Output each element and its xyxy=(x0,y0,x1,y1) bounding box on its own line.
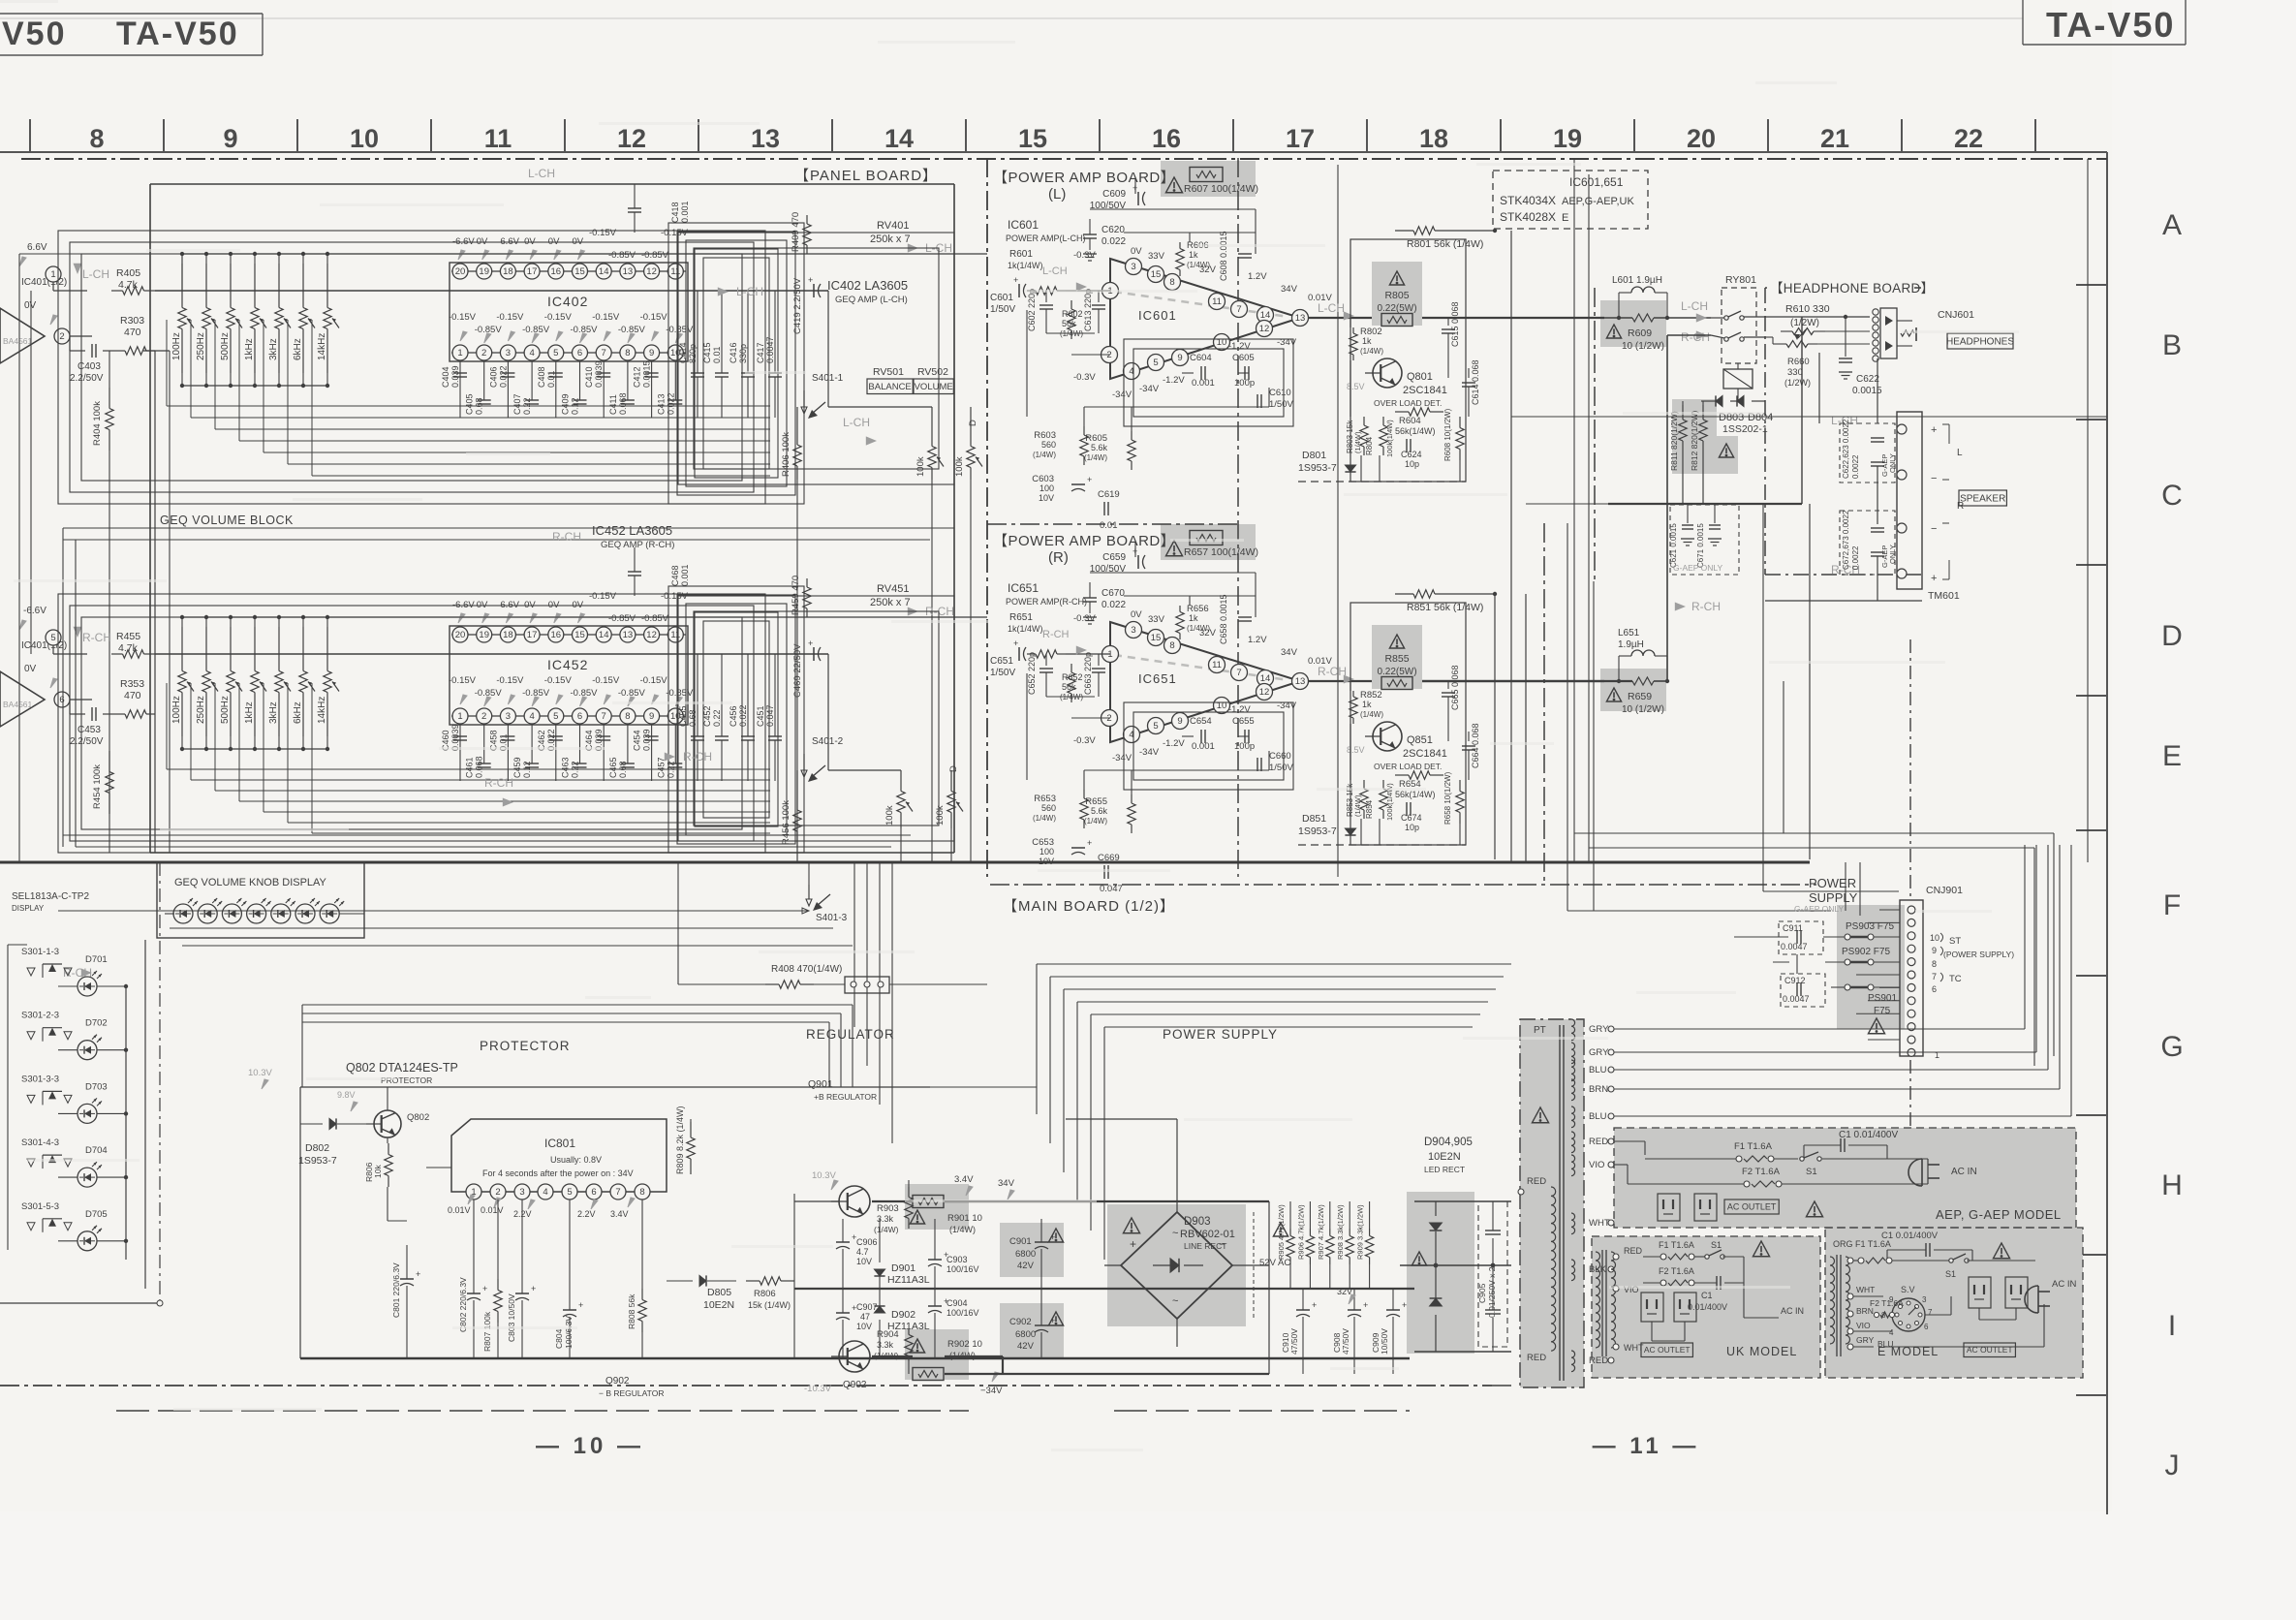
svg-text:10 (1/2W): 10 (1/2W) xyxy=(1622,341,1664,352)
svg-text:18: 18 xyxy=(503,266,513,277)
svg-text:R456 100k: R456 100k xyxy=(781,800,791,845)
svg-text:Q801: Q801 xyxy=(1407,371,1433,383)
resistor R812 xyxy=(1690,405,1707,471)
svg-text:E: E xyxy=(1562,212,1568,224)
svg-text:7: 7 xyxy=(1928,1308,1933,1317)
resistor group R905-R909 xyxy=(1277,1201,1374,1289)
svg-text:SEL1813A-C-TP2: SEL1813A-C-TP2 xyxy=(12,891,89,902)
svg-text:15: 15 xyxy=(574,266,585,277)
svg-text:14kHz: 14kHz xyxy=(317,697,327,724)
svg-text:10V: 10V xyxy=(856,1322,872,1331)
svg-text:10k: 10k xyxy=(373,1165,383,1178)
labels IC402 top voltages xyxy=(452,228,689,261)
svg-text:500Hz: 500Hz xyxy=(220,332,231,360)
wire bus L y300 xyxy=(155,290,828,292)
svg-text:1.2V: 1.2V xyxy=(1248,271,1267,282)
svg-text:2SC1841: 2SC1841 xyxy=(1403,748,1447,760)
svg-text:C610: C610 xyxy=(1269,388,1291,398)
svg-text:100Hz: 100Hz xyxy=(171,332,182,360)
svg-text:+: + xyxy=(1087,838,1092,848)
wire mesh power feed xyxy=(1037,964,1511,1260)
svg-text:C407: C407 xyxy=(512,393,522,415)
svg-text:13: 13 xyxy=(751,124,780,153)
svg-text:0V: 0V xyxy=(1131,609,1142,620)
svg-text:4.7k: 4.7k xyxy=(118,279,139,291)
svg-text:-1.2V: -1.2V xyxy=(1163,738,1185,749)
svg-text:DISPLAY: DISPLAY xyxy=(12,904,45,913)
svg-text:C413: C413 xyxy=(656,393,666,415)
terminal TM601 xyxy=(1897,412,1964,602)
svg-text:0.001: 0.001 xyxy=(680,201,690,223)
svg-text:3: 3 xyxy=(519,1187,524,1198)
title box top-left xyxy=(0,14,263,55)
shade D904 D905 xyxy=(1407,1192,1474,1354)
svg-text:1S953-7: 1S953-7 xyxy=(298,1155,337,1167)
svg-text:0.039: 0.039 xyxy=(450,365,460,388)
wire mesh panel to protector xyxy=(58,504,1050,986)
svg-text:L-CH: L-CH xyxy=(1318,301,1345,315)
capacitor C622h xyxy=(1839,315,1882,396)
svg-text:C604: C604 xyxy=(1190,353,1212,363)
capacitor C910 xyxy=(1281,1289,1317,1374)
svg-text:0.01: 0.01 xyxy=(546,370,556,388)
svg-text:15: 15 xyxy=(574,630,585,640)
resistor R806h xyxy=(746,1277,794,1310)
AC plug aep xyxy=(1908,1159,1939,1186)
svg-text:0.022: 0.022 xyxy=(666,392,675,415)
svg-text:D801: D801 xyxy=(1302,450,1326,461)
svg-text:R-CH: R-CH xyxy=(1042,629,1070,640)
shade UK model xyxy=(1592,1236,1820,1378)
svg-text:(1/4W): (1/4W) xyxy=(1353,431,1362,453)
svg-text:0.12: 0.12 xyxy=(571,397,580,415)
svg-text:0.68: 0.68 xyxy=(618,761,628,778)
svg-text:10V: 10V xyxy=(856,1257,872,1266)
UK transformer xyxy=(1596,1250,1619,1356)
svg-text:5: 5 xyxy=(567,1187,572,1198)
svg-text:PS902 F75: PS902 F75 xyxy=(1842,947,1890,957)
svg-text:C454: C454 xyxy=(633,730,642,751)
svg-text:-0.15V: -0.15V xyxy=(449,675,477,686)
wire mesh overload L xyxy=(1298,318,1469,482)
svg-text:PT: PT xyxy=(1534,1025,1546,1036)
svg-text:13: 13 xyxy=(1295,313,1306,324)
svg-text:8: 8 xyxy=(1932,959,1937,969)
faint top rule xyxy=(0,17,2023,19)
svg-text:AC IN: AC IN xyxy=(1781,1306,1804,1316)
transistor Q902 xyxy=(804,1341,870,1394)
svg-text:2: 2 xyxy=(481,348,486,358)
svg-text:R906 4.7k(1/2W): R906 4.7k(1/2W) xyxy=(1296,1204,1305,1260)
svg-text:Usually: 0.8V: Usually: 0.8V xyxy=(550,1155,602,1165)
svg-text:R908 3.3k(1/2W): R908 3.3k(1/2W) xyxy=(1336,1204,1345,1260)
svg-text:IC651: IC651 xyxy=(1138,671,1177,686)
wire top dash-dot bus xyxy=(21,158,2107,160)
warning e xyxy=(1993,1243,2009,1259)
svg-text:12: 12 xyxy=(1259,687,1270,698)
svg-text:C671 0.0015: C671 0.0015 xyxy=(1696,523,1705,568)
AEP model border xyxy=(1614,1128,2076,1228)
svg-text:+: + xyxy=(416,1269,420,1279)
svg-text:OVER LOAD DET.: OVER LOAD DET. xyxy=(1374,398,1442,408)
capacitor C620L xyxy=(1083,219,1126,261)
svg-text:1.2V: 1.2V xyxy=(1248,635,1267,645)
svg-text:19: 19 xyxy=(1553,124,1582,153)
svg-text:C664 0.068: C664 0.068 xyxy=(1471,723,1480,768)
resistor R459 xyxy=(791,576,811,617)
svg-text:C619: C619 xyxy=(1098,489,1120,500)
svg-text:R455: R455 xyxy=(116,631,140,642)
wire hp jack returns xyxy=(1765,317,1922,601)
svg-text:1k: 1k xyxy=(1189,613,1198,623)
svg-text:470: 470 xyxy=(124,690,141,701)
label PROTECTOR xyxy=(480,1039,571,1053)
svg-text:34V: 34V xyxy=(998,1178,1015,1189)
svg-text:-0.3V: -0.3V xyxy=(1073,372,1096,383)
svg-text:F2 T1.6A: F2 T1.6A xyxy=(1659,1266,1694,1276)
svg-text:-0.15V: -0.15V xyxy=(589,591,617,602)
labels RV401 frequencies xyxy=(171,332,327,360)
label UK MODEL xyxy=(1726,1345,1797,1358)
column numbers 8-22 xyxy=(89,124,1983,153)
resistor R660 xyxy=(1779,329,1817,388)
svg-text:100p: 100p xyxy=(1234,741,1255,752)
svg-text:RED: RED xyxy=(1527,1176,1546,1187)
diode D801 xyxy=(1298,450,1356,474)
svg-text:100k: 100k xyxy=(935,805,946,826)
svg-text:1S953-7: 1S953-7 xyxy=(1298,462,1337,474)
svg-text:F2 T1.6A: F2 T1.6A xyxy=(1870,1298,1904,1308)
svg-text:S401-1: S401-1 xyxy=(812,373,844,384)
capacitor C601L xyxy=(990,293,1015,315)
svg-text:-34V: -34V xyxy=(1112,389,1132,400)
wire bus R y675 xyxy=(155,653,828,655)
svg-text:S1: S1 xyxy=(1806,1167,1817,1177)
svg-text:820p: 820p xyxy=(688,344,698,363)
svg-text:-34V: -34V xyxy=(1112,753,1132,763)
svg-text:GRY: GRY xyxy=(1589,1024,1609,1035)
label 6.6V opampL xyxy=(19,242,47,266)
shade R659 xyxy=(1600,669,1666,711)
svg-text:R652: R652 xyxy=(1062,672,1083,682)
capacitor C904 xyxy=(928,1296,979,1318)
svg-text:D805: D805 xyxy=(707,1287,731,1298)
IC U402 chip xyxy=(450,263,688,361)
svg-text:C451: C451 xyxy=(756,705,765,727)
svg-text:3.4V: 3.4V xyxy=(610,1209,629,1219)
svg-text:J: J xyxy=(2165,1449,2180,1481)
wire main board divider xyxy=(1544,288,1595,911)
svg-text:R-CH: R-CH xyxy=(552,530,581,544)
switch S301-3-3 xyxy=(21,1074,72,1105)
svg-text:100/16V: 100/16V xyxy=(946,1264,979,1274)
svg-text:56k(1/4W): 56k(1/4W) xyxy=(1395,426,1436,436)
resistor R602R xyxy=(1060,664,1083,702)
capacitor C605L xyxy=(1232,353,1255,389)
resistor R353 xyxy=(116,678,155,718)
wire regulator rails xyxy=(794,1180,1414,1374)
svg-text:Q902: Q902 xyxy=(843,1380,867,1390)
wire d904 bus xyxy=(1400,1201,1511,1352)
relay RY801 xyxy=(1711,274,1765,401)
capacitor C608L xyxy=(1219,231,1252,281)
svg-text:D: D xyxy=(2161,620,2183,652)
resistor R409 xyxy=(791,212,811,254)
svg-text:R-CH: R-CH xyxy=(1318,665,1347,678)
svg-text:L-CH: L-CH xyxy=(1681,299,1708,313)
svg-text:STK4028X: STK4028X xyxy=(1500,210,1556,224)
svg-text:C416: C416 xyxy=(729,342,738,363)
svg-text:POWER SUPPLY: POWER SUPPLY xyxy=(1163,1027,1278,1042)
resistor R605R xyxy=(1084,794,1135,833)
label L-CH hp xyxy=(1831,414,1858,427)
svg-text:【HEADPHONE BOARD】: 【HEADPHONE BOARD】 xyxy=(1770,281,1934,296)
svg-text:C902: C902 xyxy=(1009,1317,1032,1327)
svg-text:IC601: IC601 xyxy=(1008,218,1039,232)
label R-CH lower right xyxy=(1675,600,1721,613)
svg-text:R353: R353 xyxy=(120,678,144,690)
resistor R456 xyxy=(781,794,801,847)
svg-text:+: + xyxy=(1931,573,1937,584)
svg-text:D: D xyxy=(948,765,959,772)
svg-text:R-CH: R-CH xyxy=(1681,330,1710,344)
svg-text:0.22: 0.22 xyxy=(571,761,580,778)
resistor R803R xyxy=(1346,780,1368,819)
resistor R601L xyxy=(1008,249,1110,297)
svg-text:RY801: RY801 xyxy=(1725,274,1756,286)
svg-text:C906: C906 xyxy=(856,1237,878,1247)
svg-text:0.22(5W): 0.22(5W) xyxy=(1377,667,1416,677)
label R-CH hp xyxy=(1831,563,1860,576)
shade E model xyxy=(1825,1228,2083,1378)
svg-text:R651: R651 xyxy=(1009,612,1033,623)
shade transformer PT xyxy=(1520,1019,1584,1387)
svg-text:+: + xyxy=(1931,424,1937,436)
svg-text:1k: 1k xyxy=(1189,250,1198,260)
resistor R608R xyxy=(1443,771,1464,825)
svg-text:C905: C905 xyxy=(1477,1283,1487,1303)
title TA-V50 top-left xyxy=(116,16,239,52)
svg-text:1SS202-1: 1SS202-1 xyxy=(1722,423,1768,435)
potentiometer bank RV451 xyxy=(167,615,987,833)
labels IC452 top voltages xyxy=(452,591,689,624)
labels IC452 bottom voltages xyxy=(449,675,694,706)
capacitor C903 xyxy=(928,1250,979,1274)
label IC601 xyxy=(1006,218,1086,243)
potentiometer RV502 R xyxy=(935,765,963,828)
capacitor C908 xyxy=(1332,1289,1368,1374)
svg-text:12: 12 xyxy=(646,630,657,640)
svg-text:C670: C670 xyxy=(1101,588,1125,599)
svg-text:R406 100k: R406 100k xyxy=(781,432,791,477)
capacitor C403 xyxy=(70,344,104,384)
svg-text:C654: C654 xyxy=(1190,716,1212,727)
fuse F1 e xyxy=(1833,1239,1951,1263)
svg-text:R901 10: R901 10 xyxy=(947,1213,982,1224)
svg-text:【POWER AMP BOARD】: 【POWER AMP BOARD】 xyxy=(993,170,1175,186)
svg-text:UK MODEL: UK MODEL xyxy=(1726,1345,1797,1358)
svg-text:POWER: POWER xyxy=(1809,876,1856,890)
svg-text:S301-1-3: S301-1-3 xyxy=(21,947,59,957)
switch S301-1-3 xyxy=(21,947,72,978)
resistor R607 xyxy=(1165,168,1258,196)
svg-text:10p: 10p xyxy=(1405,823,1419,832)
svg-text:6: 6 xyxy=(577,348,582,358)
svg-text:C624: C624 xyxy=(1401,450,1422,459)
bridge rectifier D903 xyxy=(1121,1212,1235,1319)
svg-text:14: 14 xyxy=(599,630,609,640)
wire mesh protector xyxy=(300,1005,1037,1358)
svg-text:10.3V: 10.3V xyxy=(248,1068,272,1078)
svg-text:ST: ST xyxy=(1949,936,1961,947)
svg-text:1/50V: 1/50V xyxy=(1269,763,1293,773)
svg-text:11: 11 xyxy=(670,266,680,277)
svg-text:C1 0.01/400V: C1 0.01/400V xyxy=(1839,1130,1898,1140)
capacitor C453 xyxy=(70,707,104,747)
resistor R454 xyxy=(92,751,113,814)
node pin1 IC401L xyxy=(46,266,61,282)
svg-text:+: + xyxy=(482,1284,487,1293)
svg-text:SPEAKER: SPEAKER xyxy=(1960,494,2005,505)
svg-text:-1.2V: -1.2V xyxy=(1228,704,1251,715)
svg-text:100k(1/4W): 100k(1/4W) xyxy=(1385,420,1394,457)
svg-text:C613 220p: C613 220p xyxy=(1083,289,1093,331)
svg-text:C410: C410 xyxy=(584,366,594,388)
svg-text:12: 12 xyxy=(617,124,646,153)
svg-text:47: 47 xyxy=(860,1312,870,1322)
capacitor C909 xyxy=(1371,1289,1407,1374)
wire mesh IC651 inner xyxy=(1027,542,1293,794)
svg-text:0.001: 0.001 xyxy=(1192,378,1215,389)
resistor R602L xyxy=(1060,300,1083,339)
wire R811 bus xyxy=(1608,401,1802,504)
svg-text:C469 22/50V: C469 22/50V xyxy=(792,643,803,698)
svg-text:20: 20 xyxy=(1687,124,1716,153)
svg-text:+: + xyxy=(1013,639,1018,648)
label AC IN e xyxy=(2052,1279,2076,1290)
svg-text:C659: C659 xyxy=(1102,552,1126,563)
svg-text:52V AC: 52V AC xyxy=(1259,1258,1290,1268)
capacitor group C622 623 xyxy=(1840,419,1897,483)
capacitor C1 uk xyxy=(1688,1274,1779,1318)
capacitor C602R xyxy=(1027,652,1053,697)
svg-text:C907: C907 xyxy=(856,1302,878,1312)
svg-text:C804: C804 xyxy=(554,1328,564,1349)
IC U452 chip xyxy=(450,626,688,725)
svg-text:【PANEL BOARD】: 【PANEL BOARD】 xyxy=(794,168,938,184)
capacitor group C414-C417 xyxy=(678,291,782,418)
svg-text:14kHz: 14kHz xyxy=(317,333,327,360)
svg-text:1: 1 xyxy=(50,269,55,280)
wire main board bottom dash xyxy=(990,884,1816,886)
svg-text:1k(1/4W): 1k(1/4W) xyxy=(1008,261,1043,270)
resistor R902 xyxy=(910,1339,982,1381)
svg-text:C406: C406 xyxy=(488,366,498,388)
node pin6 IC401R xyxy=(54,692,70,707)
svg-text:D904,905: D904,905 xyxy=(1424,1137,1473,1148)
label SPEAKER box xyxy=(1959,490,2006,506)
svg-text:1: 1 xyxy=(1107,649,1112,660)
svg-text:2: 2 xyxy=(481,711,486,722)
warning aep xyxy=(1806,1201,1822,1217)
svg-text:(L): (L) xyxy=(1048,186,1066,202)
resistor R601R xyxy=(1008,612,1110,661)
svg-text:S1: S1 xyxy=(1711,1240,1722,1250)
svg-text:SUPPLY: SUPPLY xyxy=(1809,890,1858,905)
capacitor C604R xyxy=(1190,716,1215,752)
labels PT primary xyxy=(1518,1176,1546,1363)
svg-text:C461: C461 xyxy=(465,757,475,778)
wire D803 line xyxy=(1701,400,1765,402)
svg-text:POWER AMP(R-CH): POWER AMP(R-CH) xyxy=(1006,597,1087,607)
svg-text:RED: RED xyxy=(1624,1246,1643,1256)
label R-CH arrows mid xyxy=(63,750,712,980)
svg-text:C904: C904 xyxy=(946,1298,968,1308)
svg-text:34V: 34V xyxy=(1281,284,1298,295)
capacitor C614R xyxy=(1462,723,1480,768)
svg-text:4.7k: 4.7k xyxy=(118,642,139,654)
capacitor C615L xyxy=(1442,301,1460,347)
label 52V AC xyxy=(1254,1212,1290,1319)
svg-text:+: + xyxy=(1312,1300,1317,1310)
svg-text:0V: 0V xyxy=(24,300,37,311)
svg-text:L-CH: L-CH xyxy=(736,285,763,298)
svg-text:0.001: 0.001 xyxy=(680,564,690,586)
svg-text:BALANCE: BALANCE xyxy=(868,382,911,392)
capacitor C604L xyxy=(1190,353,1215,389)
svg-text:5: 5 xyxy=(553,348,558,358)
svg-text:3.4V: 3.4V xyxy=(954,1174,974,1185)
svg-text:7: 7 xyxy=(1236,304,1241,315)
svg-text:R454 100k: R454 100k xyxy=(92,764,103,809)
scan noise xyxy=(0,0,2019,1451)
resistor R807 xyxy=(482,1199,502,1358)
label 0V opampL xyxy=(24,300,57,325)
svg-text:6: 6 xyxy=(59,695,64,705)
resistor R608L xyxy=(1443,408,1464,461)
diode D851 xyxy=(1298,813,1356,837)
svg-text:IC452: IC452 xyxy=(547,657,588,672)
svg-text:22: 22 xyxy=(1954,124,1983,153)
svg-text:C468: C468 xyxy=(670,565,680,586)
label 0V opampR xyxy=(24,664,57,688)
svg-text:0.0039: 0.0039 xyxy=(594,360,604,388)
svg-text:16: 16 xyxy=(551,266,562,277)
title box top-right xyxy=(2023,0,2186,45)
svg-text:0.22: 0.22 xyxy=(666,761,675,778)
svg-text:250Hz: 250Hz xyxy=(196,696,206,724)
svg-text:100Hz: 100Hz xyxy=(171,696,182,724)
title V50 top-left xyxy=(2,16,67,52)
svg-text:(1/4W): (1/4W) xyxy=(1360,710,1383,719)
svg-text:0V: 0V xyxy=(24,664,37,674)
svg-text:F: F xyxy=(2163,889,2181,921)
capacitor C418 xyxy=(528,167,690,233)
svg-text:0.0047: 0.0047 xyxy=(1783,994,1810,1004)
svg-text:G-AEP ONLY: G-AEP ONLY xyxy=(1794,904,1845,914)
potentiometer RV502 L xyxy=(954,420,982,480)
svg-text:OVER LOAD DET.: OVER LOAD DET. xyxy=(1374,762,1442,771)
svg-text:6.6V: 6.6V xyxy=(27,242,47,253)
capacitor C902 xyxy=(1009,1312,1064,1352)
svg-text:(1/4W): (1/4W) xyxy=(1187,261,1210,269)
svg-text:6800: 6800 xyxy=(1015,1329,1036,1340)
svg-text:F1 T1.6A: F1 T1.6A xyxy=(1659,1240,1694,1250)
resistor R903 xyxy=(874,1187,913,1234)
svg-text:-1.2V: -1.2V xyxy=(1228,341,1251,352)
svg-text:3: 3 xyxy=(1922,1295,1927,1304)
svg-text:R602: R602 xyxy=(1062,309,1083,319)
